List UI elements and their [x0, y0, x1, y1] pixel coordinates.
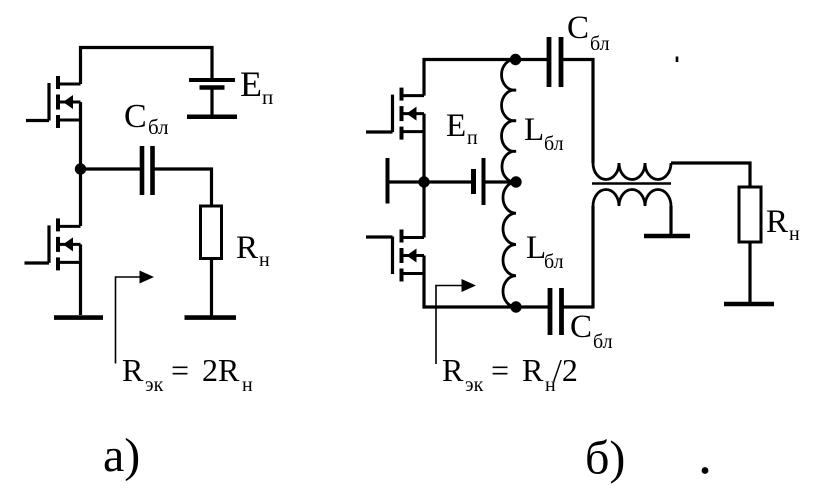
wire top rail b	[423, 58, 550, 61]
ground bar under resistor b	[724, 302, 774, 307]
node B (top junction)	[510, 54, 521, 65]
inductor Lбл bottom (4 loops)	[503, 182, 516, 307]
wire bottom cap to right riser	[562, 305, 595, 308]
wire node E to bottom capacitor	[516, 305, 550, 308]
label Lбл bottom	[526, 230, 564, 273]
svg-text:а): а)	[103, 429, 140, 482]
battery bottom terminal bar	[187, 115, 237, 120]
svg-text:п: п	[262, 85, 273, 109]
svg-text:бл: бл	[148, 115, 169, 139]
label Rн (circuit a)	[236, 230, 270, 271]
wire primary right to load	[671, 163, 750, 187]
svg-text:эк: эк	[145, 374, 164, 396]
wire VT3 source down to node C	[422, 114, 425, 182]
stray tick mark	[676, 57, 679, 63]
wire VT2 source to ground	[79, 244, 82, 315]
wire node A to capacitor	[81, 167, 143, 170]
transistor VT4 (lower MOSFET)	[393, 230, 425, 282]
svg-text:бл: бл	[590, 33, 610, 55]
node D (coil midpoint)	[510, 176, 521, 187]
svg-text:R: R	[236, 230, 258, 266]
capacitor Cбл bottom (circuit b)	[548, 288, 553, 335]
ground bar under resistor a	[185, 315, 237, 320]
battery Eп (circuit b): terminal bar	[386, 158, 390, 204]
battery long plate	[482, 158, 486, 205]
label Cбл top	[567, 10, 610, 55]
svg-text:R: R	[122, 352, 144, 388]
svg-text:2R: 2R	[202, 352, 240, 388]
svg-text:/2: /2	[553, 352, 578, 388]
svg-text:эк: эк	[465, 374, 484, 396]
wire gate lead VT4 (connects at top of gate bar)	[366, 235, 393, 238]
ground bar transformer secondary	[644, 234, 690, 239]
ground bar under VT2	[54, 315, 103, 320]
wire VT4 source down and right to bottom rail	[424, 256, 516, 308]
wire resistor b to ground	[748, 242, 751, 302]
wire VT1 drain up to top rail	[79, 46, 82, 84]
node E (bottom junction)	[510, 301, 521, 312]
svg-text:C: C	[570, 309, 592, 345]
label Eп (circuit b)	[446, 108, 478, 149]
svg-text:R: R	[766, 204, 788, 240]
label Rн (circuit b)	[766, 204, 800, 245]
label Cбл bottom	[570, 309, 613, 353]
trailing period	[702, 467, 709, 474]
wire top rail down to battery	[210, 46, 213, 80]
transistor VT1 (upper MOSFET)	[49, 76, 81, 128]
svg-text:L: L	[524, 112, 544, 148]
wire node A down to VT2 drain	[79, 169, 82, 226]
svg-text:C: C	[124, 98, 147, 135]
label Lбл top	[524, 112, 564, 155]
svg-text:E: E	[446, 108, 466, 144]
battery short plate	[200, 85, 225, 90]
svg-text:E: E	[240, 64, 262, 104]
node C (battery junction)	[418, 176, 429, 187]
svg-text:н: н	[259, 249, 270, 271]
resistor Rн (circuit a)	[201, 206, 222, 259]
transformer core	[592, 182, 671, 185]
battery short plate	[471, 169, 476, 194]
svg-text:б): б)	[585, 432, 625, 485]
wire right riser down (top cap corner to transformer primary)	[591, 58, 594, 163]
wire resistor to ground	[210, 259, 213, 317]
label Cбл (circuit a)	[124, 98, 169, 139]
svg-text:н: н	[242, 374, 253, 396]
wire secondary right down to ground	[669, 206, 672, 234]
svg-text:бл: бл	[593, 331, 613, 353]
capacitor Cбл (circuit a)	[140, 146, 145, 195]
label Rэк = 2Rн	[122, 352, 253, 396]
svg-text:бл: бл	[544, 251, 564, 273]
svg-text:=: =	[491, 352, 509, 388]
transformer T1 secondary (3 bumps)	[593, 190, 671, 206]
svg-text:бл: бл	[544, 133, 564, 155]
svg-text:R: R	[522, 352, 544, 388]
svg-text:п: п	[467, 127, 478, 149]
wire secondary left down to bottom rail	[591, 206, 594, 307]
wire capacitor to resistor	[153, 169, 212, 206]
svg-text:н: н	[789, 223, 800, 245]
wire VT1 source down to node A	[79, 102, 82, 169]
resistor Rн (circuit b)	[739, 187, 761, 242]
inductor Lбл top (4 loops)	[502, 59, 516, 182]
wire terminal bar to short plate through node C	[388, 180, 474, 183]
wire node C down to VT4 drain	[422, 182, 425, 238]
label Rэк = Rн/2	[442, 352, 578, 396]
arrow pointer (equivalent load, circuit a)	[116, 271, 155, 364]
wire long plate to node D	[484, 180, 517, 183]
transistor VT2 (lower MOSFET)	[49, 218, 81, 270]
label Eп	[240, 64, 273, 109]
capacitor Cбл top (circuit b)	[547, 37, 552, 87]
wire gate lead VT3	[366, 130, 393, 133]
svg-text:C: C	[567, 10, 589, 46]
svg-text:=: =	[171, 352, 189, 388]
node A (midpoint junction)	[75, 163, 86, 174]
wire cap top to right corner	[561, 58, 595, 61]
transformer T1 primary (3 bumps)	[593, 163, 671, 180]
battery Eп (circuit a): long plate	[189, 78, 235, 82]
wire top rail	[79, 46, 214, 49]
battery stem	[210, 89, 213, 115]
arrow pointer (equivalent load, circuit b)	[436, 279, 476, 364]
transistor VT3 (upper MOSFET)	[393, 88, 425, 140]
wire VT3 drain up to top rail	[422, 58, 425, 96]
svg-text:R: R	[442, 352, 464, 388]
wire gate lead VT1	[26, 119, 49, 122]
wire gate lead VT2	[25, 261, 50, 264]
